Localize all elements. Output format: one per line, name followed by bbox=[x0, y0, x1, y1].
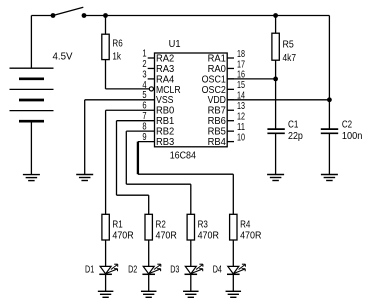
svg-text:RB1: RB1 bbox=[156, 116, 175, 127]
svg-text:1k: 1k bbox=[112, 52, 121, 63]
svg-text:12: 12 bbox=[237, 112, 245, 123]
svg-text:RB3: RB3 bbox=[156, 137, 175, 148]
svg-text:R3: R3 bbox=[198, 220, 209, 231]
svg-text:R5: R5 bbox=[283, 40, 295, 51]
svg-text:VSS: VSS bbox=[156, 95, 174, 106]
svg-text:R1: R1 bbox=[112, 220, 123, 231]
svg-text:13: 13 bbox=[237, 101, 245, 112]
svg-text:RA1: RA1 bbox=[208, 53, 227, 64]
svg-text:1: 1 bbox=[142, 48, 146, 59]
svg-text:D4: D4 bbox=[213, 264, 222, 275]
svg-text:D1: D1 bbox=[85, 264, 94, 275]
svg-text:U1: U1 bbox=[169, 39, 181, 50]
svg-text:MCLR: MCLR bbox=[156, 85, 181, 96]
svg-text:100n: 100n bbox=[342, 131, 363, 142]
svg-text:RA3: RA3 bbox=[156, 64, 175, 75]
svg-text:RB4: RB4 bbox=[208, 137, 227, 148]
svg-text:VDD: VDD bbox=[208, 95, 226, 106]
svg-text:RA4: RA4 bbox=[156, 74, 175, 85]
svg-text:470R: 470R bbox=[112, 231, 133, 242]
svg-text:RB0: RB0 bbox=[156, 106, 175, 117]
svg-text:D3: D3 bbox=[170, 264, 179, 275]
svg-text:16C84: 16C84 bbox=[170, 150, 197, 161]
svg-text:RB5: RB5 bbox=[208, 127, 227, 138]
svg-text:OSC2: OSC2 bbox=[202, 85, 227, 96]
svg-text:10: 10 bbox=[237, 132, 245, 143]
svg-text:OSC1: OSC1 bbox=[202, 74, 227, 85]
svg-text:RA0: RA0 bbox=[208, 64, 227, 75]
svg-text:4.5V: 4.5V bbox=[53, 52, 73, 63]
svg-text:2: 2 bbox=[142, 59, 146, 70]
svg-text:22p: 22p bbox=[288, 131, 303, 142]
svg-text:C2: C2 bbox=[342, 120, 352, 131]
svg-text:4: 4 bbox=[142, 80, 146, 91]
svg-text:3: 3 bbox=[142, 69, 146, 80]
svg-text:470R: 470R bbox=[156, 231, 177, 242]
svg-text:17: 17 bbox=[237, 59, 245, 70]
svg-text:RB6: RB6 bbox=[208, 116, 227, 127]
svg-text:RB7: RB7 bbox=[208, 106, 227, 117]
svg-text:R4: R4 bbox=[240, 220, 251, 231]
svg-text:C1: C1 bbox=[288, 120, 299, 131]
svg-text:18: 18 bbox=[237, 49, 245, 60]
svg-text:RB2: RB2 bbox=[156, 127, 175, 138]
svg-text:R6: R6 bbox=[112, 39, 123, 50]
svg-text:R2: R2 bbox=[156, 220, 167, 231]
svg-text:15: 15 bbox=[237, 80, 245, 91]
svg-text:D2: D2 bbox=[128, 264, 137, 275]
svg-text:470R: 470R bbox=[198, 231, 219, 242]
svg-text:RA2: RA2 bbox=[156, 53, 175, 64]
svg-text:470R: 470R bbox=[240, 231, 261, 242]
svg-text:11: 11 bbox=[237, 122, 245, 133]
svg-text:4k7: 4k7 bbox=[283, 53, 297, 64]
